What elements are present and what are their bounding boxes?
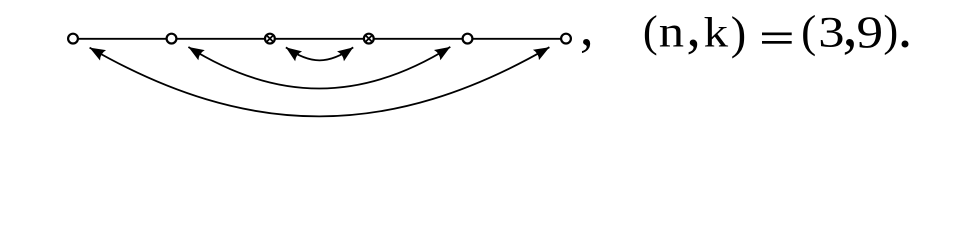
svg-text:,: , [843,0,858,60]
svg-text:9: 9 [857,7,884,58]
svg-text:,: , [580,0,594,57]
svg-text:3: 3 [818,9,844,57]
svg-text:): ) [731,8,746,59]
svg-text:): ) [883,5,898,55]
svg-text:,: , [686,0,701,59]
svg-text:(: ( [643,6,658,56]
svg-text:(: ( [801,6,816,56]
svg-text:n: n [659,8,684,56]
svg-text:k: k [704,9,729,56]
